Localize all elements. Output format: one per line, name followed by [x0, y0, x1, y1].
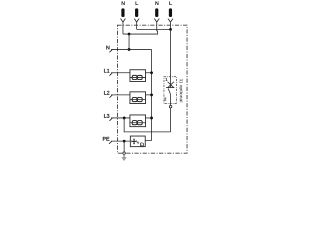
junction dot L1/bus [150, 71, 153, 74]
terminal label N (top 1) [122, 1, 125, 5]
wire L3 tap down and across [124, 118, 170, 132]
label L3 row [104, 114, 109, 118]
terminal pin N2 [155, 8, 158, 17]
wire L3 module to bus [146, 117, 152, 119]
terminal label 2 [164, 98, 166, 101]
wire PE row [111, 140, 130, 142]
SPD module L2 element [132, 97, 137, 101]
wire L2 row [111, 94, 130, 96]
terminal pin N1 [121, 8, 124, 17]
earth stem [123, 155, 125, 158]
N-PE spark gap module box [130, 136, 145, 147]
clamp fork terminal 4 [168, 19, 173, 23]
slash N row [109, 50, 112, 53]
SPD module L3 box [130, 115, 146, 127]
wire L terminal 4 drop [170, 22, 172, 29]
slash L1 row [109, 73, 112, 76]
SPD module L1 box [130, 70, 146, 82]
clamp fork terminal 3 [154, 19, 159, 23]
terminal label L (top 4) [169, 1, 172, 5]
label L1 row [104, 69, 109, 73]
label L2 row [104, 91, 109, 95]
device boundary dash-dot box [117, 25, 187, 153]
wire L1 module to bus [146, 72, 152, 74]
clamp fork terminal 1 [120, 19, 125, 23]
disconnector feed wire [170, 29, 172, 87]
earth arrow [121, 157, 126, 161]
main N collecting bus [145, 49, 151, 140]
wire L1 row [111, 72, 130, 74]
disconnector lower wire [170, 94, 172, 105]
slash L2 row [109, 95, 112, 98]
label PE row [103, 137, 109, 141]
junction dot L bus [169, 28, 172, 31]
rotated note 1) optional [179, 79, 183, 102]
wire N crossover bus [123, 31, 158, 34]
label N row [106, 46, 109, 50]
junction dot N row [128, 48, 131, 51]
N-PE spark gap symbol electrode [140, 143, 143, 147]
terminal label N (top 3) [155, 1, 158, 5]
terminal label 1 [166, 78, 168, 81]
disconnector blade [168, 88, 170, 94]
wire L crossover bus [137, 28, 171, 30]
disconnector cross [168, 82, 174, 88]
SPD module L3 element [132, 121, 137, 125]
junction dot N crossover [128, 33, 131, 36]
slash L3 row [109, 118, 112, 121]
N-PE spark gap symbol diagonal [137, 141, 139, 143]
wire N drop to N row [128, 34, 130, 49]
terminal pin L2 [169, 8, 172, 17]
SPD module L2 box [130, 92, 146, 104]
junction dot L2/bus [150, 93, 153, 96]
PE boundary connector circle [123, 152, 126, 155]
clamp fork terminal 2 [134, 19, 139, 23]
wire L3 row [111, 117, 130, 119]
junction dot PE row [123, 140, 126, 143]
terminal pin L1 [135, 8, 138, 17]
wire N row [111, 48, 152, 50]
connector circle [169, 105, 172, 108]
wire L terminal 2 drop [136, 22, 138, 29]
terminal label L (top 2) [135, 1, 138, 5]
N-PE spark gap symbol cross [132, 139, 137, 144]
junction dot L3 tap [123, 117, 126, 120]
optional module dash-dot box [164, 77, 177, 104]
junction dot L3/bus [150, 117, 153, 120]
wire N terminal 3 drop [156, 22, 158, 31]
wire N terminal 1 drop [122, 22, 124, 34]
disconnector contact bar [166, 87, 174, 89]
slash PE row [109, 141, 112, 144]
wire PE drop to earth [123, 141, 125, 152]
wire from connector to tap line [170, 108, 172, 132]
SPD module L1 element [132, 75, 137, 79]
wire L2 module to bus [146, 94, 152, 96]
